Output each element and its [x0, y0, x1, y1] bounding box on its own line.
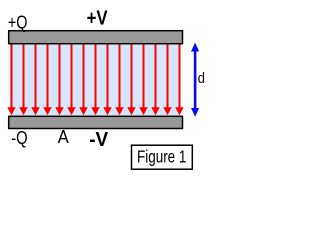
- field line arrow E8: [91, 44, 99, 115]
- field line arrow E5: [55, 44, 63, 115]
- field line arrow E11: [127, 44, 135, 115]
- field line arrow E4: [43, 44, 51, 115]
- field line arrow E6: [67, 44, 75, 115]
- field line arrow E2: [19, 44, 27, 115]
- field line arrow E13: [151, 44, 159, 115]
- top capacitor plate (+): [9, 31, 183, 44]
- figure caption box: [132, 145, 193, 169]
- field line arrow E9: [103, 44, 111, 115]
- svg-text:+Q: +Q: [8, 12, 28, 32]
- svg-text:+V: +V: [87, 7, 109, 29]
- field line arrow E3: [31, 44, 39, 115]
- bottom capacitor plate (-): [9, 116, 183, 128]
- svg-text:-V: -V: [89, 129, 109, 151]
- field line arrow E14: [163, 44, 171, 115]
- svg-text:-Q: -Q: [11, 128, 27, 148]
- field line arrow E7: [79, 44, 87, 115]
- svg-text:Figure 1: Figure 1: [137, 146, 186, 166]
- field line arrow E10: [115, 44, 123, 115]
- svg-text:d: d: [198, 71, 205, 87]
- dielectric gap region between plates: [10, 44, 181, 116]
- field line arrow E1: [7, 44, 15, 115]
- field line arrow E12: [139, 44, 147, 115]
- plate separation arrow d (double headed): [191, 43, 199, 117]
- svg-text:A: A: [58, 126, 70, 147]
- field line arrow E15: [175, 44, 183, 115]
